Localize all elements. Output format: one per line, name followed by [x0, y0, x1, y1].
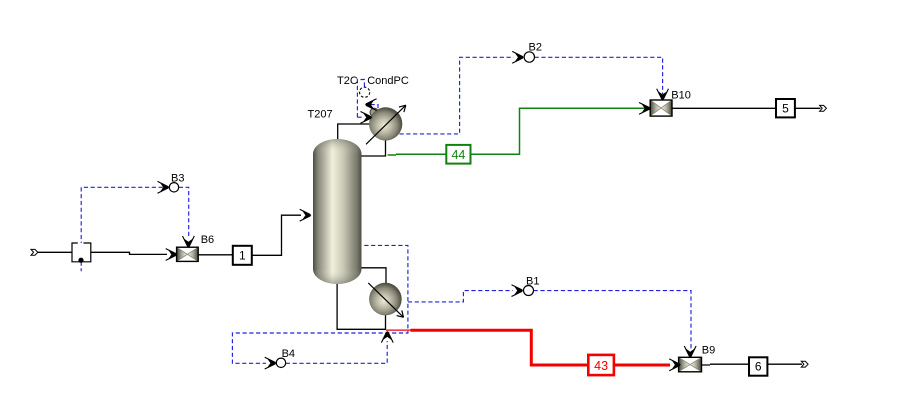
- svg-text:CondPC: CondPC: [367, 75, 409, 87]
- svg-text:B9: B9: [702, 345, 715, 357]
- svg-text:B2: B2: [529, 42, 542, 54]
- svg-text:5: 5: [782, 101, 789, 115]
- svg-text:B10: B10: [671, 89, 691, 101]
- svg-text:T207: T207: [308, 109, 333, 121]
- svg-text:B3: B3: [171, 173, 184, 185]
- svg-text:6: 6: [755, 360, 762, 374]
- svg-text:B6: B6: [201, 234, 214, 246]
- svg-text:1: 1: [239, 249, 246, 263]
- svg-text:43: 43: [594, 359, 608, 373]
- svg-text:B1: B1: [526, 276, 539, 288]
- svg-text:T2C: T2C: [337, 75, 358, 87]
- svg-text:44: 44: [451, 148, 465, 162]
- svg-text:B4: B4: [282, 348, 295, 360]
